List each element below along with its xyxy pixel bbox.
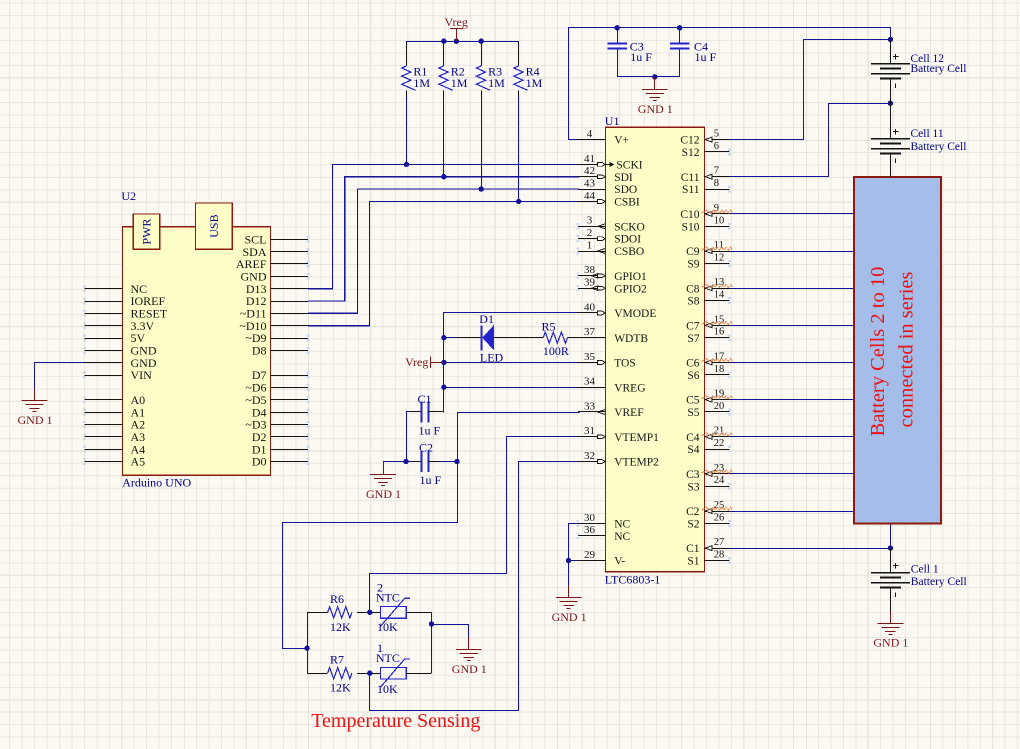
svg-text:S9: S9 — [687, 259, 699, 271]
svg-text:R5: R5 — [542, 320, 556, 334]
svg-text:C12: C12 — [680, 135, 699, 147]
svg-text:S5: S5 — [687, 407, 699, 419]
svg-text:VIN: VIN — [131, 368, 153, 382]
svg-text:Battery Cell: Battery Cell — [911, 63, 967, 75]
svg-text:27: 27 — [714, 537, 725, 548]
svg-text:SDI: SDI — [614, 172, 633, 184]
svg-text:LTC6803-1: LTC6803-1 — [605, 573, 661, 587]
svg-text:12K: 12K — [330, 681, 351, 695]
svg-text:NC: NC — [614, 519, 630, 531]
svg-text:20: 20 — [714, 401, 725, 412]
svg-text:GND 1: GND 1 — [873, 636, 908, 650]
svg-text:1: 1 — [587, 239, 593, 251]
svg-text:VTEMP1: VTEMP1 — [614, 432, 659, 444]
svg-text:D8: D8 — [252, 344, 267, 358]
svg-text:VTEMP2: VTEMP2 — [614, 457, 659, 469]
svg-text:A5: A5 — [131, 455, 146, 469]
svg-text:WDTB: WDTB — [614, 333, 648, 345]
svg-text:1M: 1M — [488, 76, 505, 90]
svg-text:30: 30 — [584, 512, 596, 524]
svg-text:100R: 100R — [543, 344, 569, 358]
svg-text:1u F: 1u F — [630, 50, 652, 64]
svg-text:C3: C3 — [686, 469, 700, 481]
svg-text:28: 28 — [714, 550, 725, 561]
svg-text:Arduino UNO: Arduino UNO — [122, 476, 191, 490]
svg-text:S6: S6 — [687, 370, 699, 382]
svg-text:S2: S2 — [687, 519, 699, 531]
svg-text:V-: V- — [614, 556, 625, 568]
svg-text:C8: C8 — [686, 283, 700, 295]
svg-text:USB: USB — [207, 214, 221, 237]
svg-text:35: 35 — [584, 351, 596, 363]
svg-text:D1: D1 — [479, 312, 494, 326]
svg-text:44: 44 — [584, 190, 596, 202]
svg-text:1u F: 1u F — [419, 424, 441, 438]
svg-text:C2: C2 — [419, 440, 433, 454]
svg-text:C4: C4 — [686, 432, 700, 444]
svg-text:GND 1: GND 1 — [552, 610, 587, 624]
svg-text:GPIO2: GPIO2 — [614, 283, 647, 295]
svg-text:U1: U1 — [605, 114, 620, 128]
svg-text:S7: S7 — [687, 333, 699, 345]
svg-text:Battery Cells 2 to 10: Battery Cells 2 to 10 — [867, 267, 889, 437]
svg-text:Temperature Sensing: Temperature Sensing — [311, 710, 480, 732]
svg-text:C6: C6 — [686, 358, 700, 370]
svg-text:14: 14 — [714, 290, 725, 301]
svg-text:C5: C5 — [686, 395, 700, 407]
svg-text:22: 22 — [714, 438, 725, 449]
svg-text:U2: U2 — [121, 189, 136, 203]
svg-text:16: 16 — [714, 327, 725, 338]
svg-text:7: 7 — [714, 166, 719, 177]
svg-text:C1: C1 — [418, 392, 432, 406]
svg-text:C9: C9 — [686, 246, 700, 258]
svg-text:R7: R7 — [330, 653, 344, 667]
svg-text:VMODE: VMODE — [614, 308, 656, 320]
svg-text:5: 5 — [714, 129, 719, 140]
svg-text:33: 33 — [584, 400, 596, 412]
svg-text:12K: 12K — [330, 620, 351, 634]
svg-text:42: 42 — [584, 165, 595, 177]
svg-text:GPIO1: GPIO1 — [614, 271, 647, 283]
svg-text:1M: 1M — [526, 76, 543, 90]
svg-text:S10: S10 — [682, 221, 700, 233]
svg-text:1M: 1M — [413, 76, 430, 90]
svg-text:6: 6 — [714, 141, 719, 152]
svg-text:3: 3 — [587, 215, 593, 227]
svg-text:TOS: TOS — [614, 358, 636, 370]
svg-text:S12: S12 — [682, 147, 700, 159]
svg-text:Cell 11: Cell 11 — [911, 128, 944, 140]
svg-text:38: 38 — [584, 264, 596, 276]
svg-text:GND 1: GND 1 — [18, 413, 53, 427]
svg-text:NTC: NTC — [376, 651, 400, 665]
svg-text:36: 36 — [584, 524, 596, 536]
svg-text:S11: S11 — [682, 184, 700, 196]
svg-text:8: 8 — [714, 178, 719, 189]
svg-text:S3: S3 — [687, 481, 699, 493]
svg-text:12: 12 — [714, 252, 725, 263]
svg-text:Battery Cell: Battery Cell — [911, 141, 967, 153]
svg-text:D0: D0 — [252, 455, 267, 469]
svg-text:connected in series: connected in series — [896, 272, 918, 428]
svg-text:NTC: NTC — [376, 590, 400, 604]
svg-text:34: 34 — [584, 376, 596, 388]
svg-text:32: 32 — [584, 450, 595, 462]
svg-text:PWR: PWR — [140, 219, 154, 245]
svg-text:SDO: SDO — [614, 184, 637, 196]
svg-text:10K: 10K — [377, 620, 398, 634]
svg-text:40: 40 — [584, 301, 596, 313]
svg-text:SCKO: SCKO — [614, 221, 645, 233]
svg-text:41: 41 — [584, 153, 595, 165]
svg-text:1M: 1M — [451, 76, 468, 90]
svg-text:Cell 1: Cell 1 — [911, 563, 939, 575]
svg-text:43: 43 — [584, 178, 596, 190]
svg-text:VREG: VREG — [614, 382, 645, 394]
svg-text:SDOI: SDOI — [614, 234, 641, 246]
svg-text:Vreg: Vreg — [445, 15, 468, 29]
svg-text:Vreg: Vreg — [405, 355, 428, 369]
svg-text:1u F: 1u F — [695, 50, 717, 64]
svg-text:Battery Cell: Battery Cell — [911, 576, 967, 588]
svg-text:C11: C11 — [681, 172, 700, 184]
svg-text:18: 18 — [714, 364, 725, 375]
svg-text:NC: NC — [614, 531, 630, 543]
svg-text:GND 1: GND 1 — [638, 102, 673, 116]
svg-text:VREF: VREF — [614, 407, 643, 419]
svg-text:31: 31 — [584, 425, 595, 437]
svg-text:CSBI: CSBI — [614, 197, 640, 209]
svg-text:37: 37 — [584, 326, 596, 338]
svg-text:R6: R6 — [330, 592, 344, 606]
svg-text:S1: S1 — [687, 556, 699, 568]
svg-text:S4: S4 — [687, 444, 699, 456]
svg-text:24: 24 — [714, 475, 725, 486]
svg-text:GND 1: GND 1 — [452, 662, 487, 676]
svg-text:4: 4 — [587, 128, 593, 140]
svg-text:SCKI: SCKI — [616, 160, 642, 172]
svg-text:26: 26 — [714, 512, 725, 523]
svg-text:C7: C7 — [686, 320, 700, 332]
svg-text:2: 2 — [587, 227, 593, 239]
svg-text:GND 1: GND 1 — [366, 487, 401, 501]
svg-text:S8: S8 — [687, 296, 699, 308]
svg-text:39: 39 — [584, 277, 596, 289]
svg-text:10K: 10K — [377, 682, 398, 696]
svg-text:10: 10 — [714, 215, 725, 226]
svg-text:C1: C1 — [686, 543, 700, 555]
svg-text:1u F: 1u F — [420, 473, 442, 487]
svg-text:CSBO: CSBO — [614, 246, 644, 258]
svg-text:29: 29 — [584, 549, 596, 561]
svg-text:C2: C2 — [686, 506, 700, 518]
svg-text:C10: C10 — [680, 209, 699, 221]
svg-text:V+: V+ — [614, 135, 629, 147]
